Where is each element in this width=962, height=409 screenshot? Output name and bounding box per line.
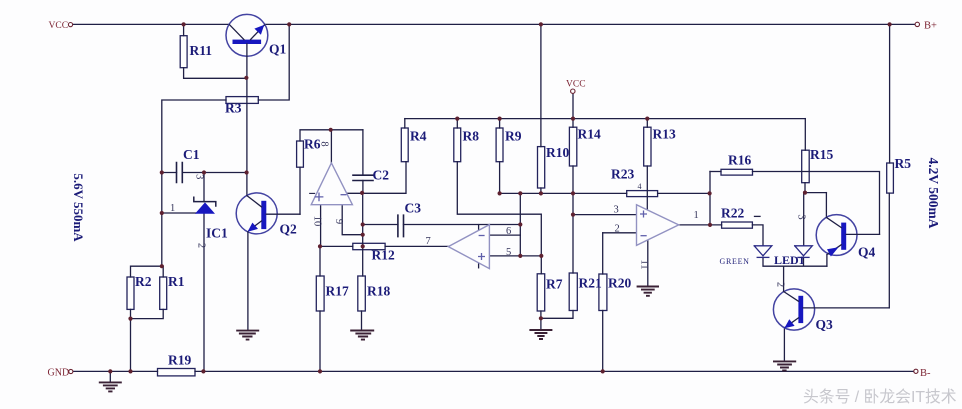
svg-text:7: 7 xyxy=(426,236,431,247)
wire C1 left xyxy=(162,172,177,174)
wire U1 pin10 down xyxy=(320,205,322,247)
svg-text:5: 5 xyxy=(506,247,511,258)
resistor R1 xyxy=(160,277,167,309)
ground Q2 emitter xyxy=(236,331,259,340)
resistor R22 xyxy=(722,222,753,228)
svg-text:5.6V 550mA: 5.6V 550mA xyxy=(71,173,86,242)
svg-text:2: 2 xyxy=(775,282,786,287)
svg-text:头条号 / 卧龙会IT技术: 头条号 / 卧龙会IT技术 xyxy=(803,388,957,406)
wire R13 top stub xyxy=(646,119,648,128)
svg-text:R10: R10 xyxy=(546,145,569,160)
wire R1 bottom to R2 bottom xyxy=(131,309,164,318)
wire R12 right to U2 output pin7 xyxy=(385,245,448,247)
svg-text:3: 3 xyxy=(614,205,619,216)
svg-text:VCC: VCC xyxy=(566,80,586,90)
svg-text:IC1: IC1 xyxy=(206,226,228,241)
junction U2 pin5/x520 riser xyxy=(518,254,522,258)
wire U2 pin6 xyxy=(489,234,520,236)
transistor Q4 base bar xyxy=(841,223,846,250)
wire node bus y193 left segment xyxy=(500,192,627,194)
wire R9 top stub xyxy=(499,119,501,128)
transistor Q1 base bar xyxy=(233,40,262,44)
wire R15 top stub xyxy=(804,119,806,151)
wire summing vertical through R12 to R18 xyxy=(362,193,364,276)
svg-text:Q4: Q4 xyxy=(858,245,876,260)
svg-text:R18: R18 xyxy=(367,284,390,299)
transistor Q3 emitter arrow xyxy=(784,319,794,328)
wire U3 output pin1 to R22 xyxy=(679,224,722,226)
terminal VCC left xyxy=(49,21,73,31)
wire R15 bottom stub xyxy=(804,183,806,193)
svg-text:B-: B- xyxy=(920,368,931,379)
terminal GND xyxy=(48,368,73,379)
svg-text:GREEN: GREEN xyxy=(720,257,750,266)
svg-text:R20: R20 xyxy=(608,276,631,291)
wire Q1 base down to Q2 collector xyxy=(246,44,248,196)
junction R20/bottom rail xyxy=(601,369,605,373)
wire C3 right lead to node xyxy=(404,224,521,226)
transistor Q2 emitter lead xyxy=(249,221,261,230)
resistor R3 xyxy=(226,97,258,104)
ground R7 xyxy=(529,330,552,339)
junction R11/top rail xyxy=(182,22,186,26)
wire C2 top lead xyxy=(362,130,364,175)
transistor Q1 collector lead xyxy=(230,25,244,40)
resistor R18 xyxy=(358,276,366,311)
junction C1 net/Q2 collector line xyxy=(245,170,249,174)
resistor R5 xyxy=(887,163,894,193)
svg-text:C2: C2 xyxy=(373,168,390,183)
resistor R21 xyxy=(569,273,577,311)
transistor Q4 xyxy=(816,215,857,256)
wire inverting node to R4 bottom xyxy=(347,162,406,194)
terminal B+ xyxy=(915,20,937,31)
transistor Q4 collector lead xyxy=(826,217,841,227)
svg-text:R17: R17 xyxy=(326,284,349,299)
wire LED right anode xyxy=(803,193,805,246)
junction R9 top/VCC bus xyxy=(498,117,502,121)
svg-text:R19: R19 xyxy=(168,353,191,368)
op-amp U1 plus input tick xyxy=(310,192,315,194)
wire R21 top xyxy=(572,193,574,273)
svg-text:1: 1 xyxy=(170,203,175,214)
capacitor C1 xyxy=(177,163,183,183)
wire feedback vertical x710 xyxy=(709,172,711,225)
wire Q2 emitter down xyxy=(247,232,249,330)
svg-text:Q3: Q3 xyxy=(816,317,834,332)
junction C3 net/x520 riser xyxy=(518,222,522,226)
svg-text:LED1: LED1 xyxy=(774,253,805,267)
R22 polarity dash xyxy=(755,215,761,217)
wire R14 top stub xyxy=(572,119,574,128)
wire R3 right up to rail xyxy=(258,24,289,100)
svg-text:R7: R7 xyxy=(546,277,563,292)
svg-text:R4: R4 xyxy=(410,129,427,144)
wire R20 bottom to rail xyxy=(602,311,604,372)
junction C2 bottom node xyxy=(360,191,364,195)
wire bottom GND/B- rail left of R19 xyxy=(73,370,158,372)
wire R8 top stub xyxy=(456,119,458,128)
wire R14 bottom xyxy=(572,166,574,193)
wire R5 top from rail xyxy=(889,24,891,163)
svg-text:R9: R9 xyxy=(505,129,522,144)
svg-text:3: 3 xyxy=(194,174,205,179)
svg-text:VCC: VCC xyxy=(49,21,69,31)
wire C1 right to Q2 collector line xyxy=(182,172,247,174)
junction R12/R18 node xyxy=(361,244,365,248)
op-amp U1 minus symbol xyxy=(341,194,347,196)
junction R11/Q1 base xyxy=(244,76,248,80)
op-amp U3 minus symbol xyxy=(641,235,647,237)
wire node bus y193 right of R23 xyxy=(658,192,710,194)
svg-text:R22: R22 xyxy=(721,206,744,221)
wire Q3 emitter to ground xyxy=(783,328,785,361)
svg-text:R1: R1 xyxy=(168,274,185,289)
svg-text:GND: GND xyxy=(48,368,70,379)
resistor R13 xyxy=(644,127,651,166)
junction IC1 pin1/left bus xyxy=(160,211,164,215)
wire Q3 collector up to R5 xyxy=(888,193,890,308)
junction R2 leg/bottom rail xyxy=(128,369,132,373)
svg-text:Q2: Q2 xyxy=(280,222,298,237)
resistor R19 xyxy=(158,369,196,376)
svg-text:R8: R8 xyxy=(463,129,480,144)
junction ground/bottom rail xyxy=(108,369,112,373)
wire R7 ground stub xyxy=(540,318,542,329)
ground U3 pin11 xyxy=(637,287,659,296)
wire U3 pin3 input xyxy=(573,214,637,216)
junction R1-R2 top/left bus xyxy=(160,264,164,268)
junction R17/pin10/R12 node xyxy=(318,244,322,248)
wire R22 right to LED left anode xyxy=(752,225,763,246)
transistor Q2 collector lead xyxy=(247,196,262,207)
ground below left rail xyxy=(109,371,111,382)
junction U1 output node xyxy=(329,128,333,132)
junction U3 pin3/R21 line xyxy=(571,213,575,217)
resistor R9 xyxy=(496,128,503,162)
resistor R23 xyxy=(627,191,658,197)
svg-text:R3: R3 xyxy=(225,101,242,116)
wire R15 node to Q4 collector xyxy=(804,192,826,194)
junction R9 bottom/node bus xyxy=(498,191,502,195)
junction R10 bottom/node bus xyxy=(539,191,543,195)
wire R2 bottom down to rail xyxy=(130,309,132,371)
wire IC1 pin2 down to bottom rail xyxy=(203,173,205,372)
ground Q3 emitter xyxy=(773,361,796,370)
wire Q2 base corner up to R6 xyxy=(299,167,301,214)
wire R2 R1 top connection xyxy=(131,266,164,277)
svg-text:1: 1 xyxy=(694,210,699,221)
svg-text:4: 4 xyxy=(638,182,642,191)
wire Q3 collector xyxy=(803,307,889,309)
resistor R4 xyxy=(401,128,408,162)
junction R14 bottom/node bus xyxy=(571,191,575,195)
resistor R2 xyxy=(127,277,134,309)
wire R4 top stub xyxy=(404,119,406,128)
resistor R20 xyxy=(599,274,607,311)
junction R3 riser/top rail xyxy=(287,22,291,26)
svg-text:R23: R23 xyxy=(611,167,634,182)
wire R21 bottom to R7 bottom xyxy=(541,311,573,319)
junction R15 bottom node xyxy=(803,191,807,195)
capacitor C2 xyxy=(353,175,373,180)
svg-text:2: 2 xyxy=(615,224,620,235)
op-amp U2 minus symbol xyxy=(479,235,485,237)
wire Q4 collector stub xyxy=(825,193,827,218)
wire R13 bottom to U3 power pin4 xyxy=(646,166,648,210)
wire R12 left xyxy=(320,245,353,247)
wire Q4 emitter down xyxy=(826,255,828,267)
LED1 green element xyxy=(754,246,772,258)
junction C1 right/IC1 cathode xyxy=(202,170,206,174)
wire R16 right across R15 to Q4 base corner xyxy=(753,172,880,235)
junction R7 bottom/R21 bottom xyxy=(539,316,543,320)
wire mid VCC horizontal bus xyxy=(405,118,806,120)
op-amp U1 xyxy=(311,163,352,205)
svg-text:6: 6 xyxy=(506,226,511,237)
wire U2 bottom power stub xyxy=(478,263,480,268)
svg-text:R6: R6 xyxy=(304,137,321,152)
svg-text:R21: R21 xyxy=(579,276,602,291)
svg-text:Q1: Q1 xyxy=(269,42,287,57)
resistor R7 xyxy=(537,274,545,311)
wire LED common down to Q3 xyxy=(783,266,785,291)
junction C3 left node xyxy=(361,222,365,226)
junction U1 pin9 node xyxy=(361,233,365,237)
wire R20 top xyxy=(602,233,604,274)
svg-text:4.2V 500mA: 4.2V 500mA xyxy=(926,157,941,228)
wire U3 pin2 input from R20 xyxy=(603,232,637,234)
svg-text:2: 2 xyxy=(196,243,207,248)
resistor R17 xyxy=(316,276,324,311)
svg-text:R5: R5 xyxy=(895,156,912,171)
wire R10 bottom stub xyxy=(540,188,542,193)
junction x520 riser/node bus xyxy=(518,191,522,195)
junction R23 right/feedback riser xyxy=(708,191,712,195)
svg-text:R11: R11 xyxy=(190,43,213,58)
LED1 red element xyxy=(795,246,813,258)
terminal VCC mid xyxy=(566,80,586,94)
transistor Q3 collector lead xyxy=(784,292,799,302)
junction R5/top rail xyxy=(888,22,892,26)
resistor R11 xyxy=(180,36,187,68)
wire C2 bottom lead xyxy=(362,181,364,193)
svg-text:C1: C1 xyxy=(183,147,200,162)
wire R16 left stub xyxy=(710,171,721,173)
junction R8 top/VCC bus xyxy=(455,117,459,121)
op-amp U2 plus symbol xyxy=(478,253,485,260)
wire node vertical x520 xyxy=(519,193,521,256)
terminal B- xyxy=(914,368,931,379)
op-amp U1 plus symbol xyxy=(315,193,324,202)
junction U2 pin5/R7 riser xyxy=(539,254,543,258)
svg-text:R12: R12 xyxy=(372,248,395,263)
op-amp U3 plus symbol xyxy=(640,211,647,218)
svg-text:10: 10 xyxy=(312,216,323,227)
op-amp U2 xyxy=(448,225,489,269)
transistor Q2 xyxy=(236,193,277,234)
wire R11 bottom to Q1 base xyxy=(184,68,247,79)
wire R10 top from rail xyxy=(540,24,542,146)
wire R17 top stub xyxy=(319,246,321,276)
svg-text:R16: R16 xyxy=(728,153,751,168)
wire R17 bottom to rail xyxy=(319,311,321,371)
junction U3 output/feedback riser xyxy=(708,223,712,227)
ground R18 xyxy=(350,331,374,340)
resistor R8 xyxy=(454,128,461,162)
wire bottom GND/B- rail right of R19 xyxy=(195,370,914,372)
wire R6 top to op-amp output node xyxy=(300,130,363,141)
svg-text:R13: R13 xyxy=(653,127,676,142)
junction IC1 pin2/bottom rail xyxy=(201,369,205,373)
wire IC1 pin1 xyxy=(162,212,196,214)
zener IC1 triangle xyxy=(195,202,215,213)
wire R18 bottom stub xyxy=(361,311,363,330)
wire R8 bottom to R7 top xyxy=(457,162,541,274)
wire top VCC/B+ rail xyxy=(73,23,915,25)
svg-text:R2: R2 xyxy=(135,274,152,289)
wire R11 top stub xyxy=(183,24,185,35)
svg-text:8: 8 xyxy=(319,141,330,146)
svg-text:9: 9 xyxy=(333,219,344,224)
wire op-amp U1 output stub xyxy=(330,130,332,164)
wire VCC terminal stub xyxy=(572,93,574,119)
svg-text:C3: C3 xyxy=(405,201,422,216)
transistor Q1 emitter lead xyxy=(251,25,265,40)
transistor Q1 emitter arrow xyxy=(254,25,264,35)
transistor Q2 emitter arrow xyxy=(248,223,258,232)
resistor R15 xyxy=(802,150,810,183)
junction R10 riser/top rail xyxy=(539,22,543,26)
resistor R16 xyxy=(721,169,753,175)
junction R17/bottom rail xyxy=(318,369,322,373)
svg-text:R15: R15 xyxy=(810,147,833,162)
junction C1 left/left bus xyxy=(160,170,164,174)
junction R2/R1 bottoms xyxy=(128,317,132,321)
transistor Q3 xyxy=(773,289,814,330)
wire Q4 base xyxy=(846,233,879,235)
svg-text:B+: B+ xyxy=(924,20,937,31)
junction VCC terminal/R14 top xyxy=(571,117,575,121)
wire U2 pin5 xyxy=(489,255,541,257)
transistor Q2 base bar xyxy=(261,201,266,229)
capacitor C3 xyxy=(398,215,404,236)
wire R9 bottom stub xyxy=(499,162,501,194)
transistor Q1 xyxy=(226,14,268,56)
resistor R14 xyxy=(569,127,576,166)
wire U1 pin9 down and right xyxy=(342,205,363,235)
resistor R10 xyxy=(538,147,545,188)
svg-text:R14: R14 xyxy=(578,127,601,142)
junction R13 top/VCC bus xyxy=(645,117,649,121)
wire U3 pin11 power stub to ground xyxy=(647,240,649,286)
wire LED cathodes common xyxy=(763,257,827,266)
svg-text:11: 11 xyxy=(639,259,650,269)
wire Q2 base xyxy=(266,213,300,215)
wire U2 top power stub xyxy=(478,225,480,231)
wire C3 left lead xyxy=(363,224,398,226)
wire R3 left to left vertical bus xyxy=(162,100,226,266)
transistor Q4 emitter lead xyxy=(827,245,841,255)
transistor Q3 base bar xyxy=(798,296,803,323)
zener IC1 cathode bar xyxy=(194,197,216,206)
svg-text:3: 3 xyxy=(796,214,807,219)
resistor R12 xyxy=(353,243,385,249)
resistor R6 xyxy=(297,141,304,167)
transistor Q4 emitter arrow xyxy=(827,247,839,256)
op-amp U3 xyxy=(637,205,679,246)
transistor Q3 emitter lead xyxy=(785,318,798,327)
